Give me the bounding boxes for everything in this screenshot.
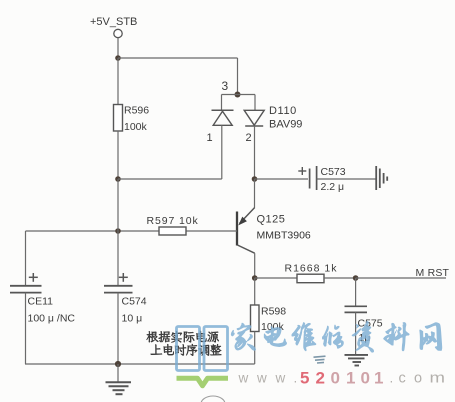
- svg-text:o: o: [414, 371, 422, 387]
- svg-text:R598: R598: [261, 306, 286, 318]
- svg-text:1: 1: [207, 132, 213, 144]
- watermark logo book (green base): [177, 378, 229, 386]
- svg-text:10 μ: 10 μ: [122, 313, 143, 325]
- svg-text:2: 2: [246, 132, 252, 144]
- svg-text:w: w: [275, 371, 286, 386]
- svg-text:1: 1: [374, 369, 383, 388]
- node pin3 junction: [235, 92, 241, 98]
- wire: down to diode common pin 3: [237, 58, 239, 95]
- bottom ground rail: [25, 363, 255, 365]
- wire: node A to diode branch (top horizontal): [118, 57, 238, 59]
- svg-text:M RST: M RST: [416, 267, 450, 279]
- svg-text:.: .: [390, 371, 394, 386]
- diode D110 left half (pin 1): [221, 95, 223, 111]
- resistor R1668: [297, 274, 324, 283]
- svg-text:0: 0: [361, 369, 370, 388]
- capacitor CE11: [25, 231, 27, 286]
- svg-text:5: 5: [300, 369, 309, 388]
- capacitor C573: [298, 170, 306, 172]
- svg-text:CE11: CE11: [28, 296, 54, 308]
- svg-text:100k: 100k: [124, 121, 148, 133]
- wire: node C to C573: [255, 178, 309, 180]
- wire: collector down to node F: [254, 253, 256, 278]
- watermark url www.520101.com: [238, 371, 394, 386]
- svg-text:c: c: [399, 371, 406, 387]
- svg-text:0: 0: [331, 369, 340, 388]
- svg-text:.: .: [294, 371, 298, 386]
- node C junction (pin2 / emitter / C573): [252, 176, 258, 182]
- node F junction: [252, 275, 258, 281]
- capacitor C575: [355, 278, 357, 306]
- svg-text:2: 2: [316, 369, 325, 388]
- wire: diode pair top bar: [222, 94, 256, 96]
- wire: node C down to emitter: [254, 179, 256, 208]
- resistor R597: [26, 230, 160, 232]
- node G junction: [353, 275, 359, 281]
- svg-text:C574: C574: [122, 296, 147, 308]
- svg-text:C573: C573: [321, 166, 346, 178]
- resistor R598: [254, 278, 256, 305]
- ground (main, below node E): [117, 364, 119, 382]
- watermark text 家电维修资料网: [231, 323, 255, 350]
- transistor Q125 MMBT3906: [240, 208, 255, 224]
- svg-text:100 μ /NC: 100 μ /NC: [28, 313, 76, 325]
- annotation note line 1: [147, 331, 159, 342]
- wire: node B to diode pin1: [118, 178, 222, 180]
- node A junction: [115, 55, 121, 61]
- svg-text:R596: R596: [124, 105, 149, 117]
- svg-text:2.2 μ: 2.2 μ: [321, 181, 345, 193]
- wire: node B down to node D: [117, 179, 119, 231]
- watermark logo book (blue brackets): [177, 327, 228, 371]
- wire: R1668 to node G: [324, 277, 356, 279]
- wire: +5V_STB down to node A: [117, 38, 119, 58]
- svg-text:BAV99: BAV99: [269, 119, 302, 131]
- diode D110 right half (pin 2): [254, 95, 256, 111]
- svg-text:m: m: [430, 371, 446, 387]
- wire: node G to M RST output: [356, 277, 446, 279]
- svg-text:w: w: [238, 371, 249, 386]
- svg-text:w: w: [256, 371, 267, 386]
- svg-text:MMBT3906: MMBT3906: [257, 230, 311, 242]
- watermark stroke detail below 修: [314, 356, 326, 363]
- node E junction (ground): [115, 361, 121, 367]
- capacitor C574: [117, 231, 119, 286]
- ground (C573, right-facing): [375, 166, 377, 190]
- wire: node F to R1668: [255, 277, 297, 279]
- annotation note line 2: [151, 344, 162, 354]
- decorative arc bottom: [201, 396, 225, 402]
- svg-text:Q125: Q125: [257, 214, 286, 226]
- ground (C575): [345, 354, 369, 356]
- resistor R596: [117, 58, 119, 105]
- svg-text:+5V_STB: +5V_STB: [90, 16, 137, 28]
- svg-text:3: 3: [222, 79, 229, 93]
- svg-text:R597 10k: R597 10k: [147, 215, 199, 227]
- node B junction (R596 bottom): [115, 176, 121, 182]
- svg-text:1: 1: [346, 369, 355, 388]
- svg-text:R1668 1k: R1668 1k: [285, 263, 338, 275]
- svg-text:D110: D110: [269, 105, 297, 117]
- node D junction (base rail / C574): [115, 228, 121, 234]
